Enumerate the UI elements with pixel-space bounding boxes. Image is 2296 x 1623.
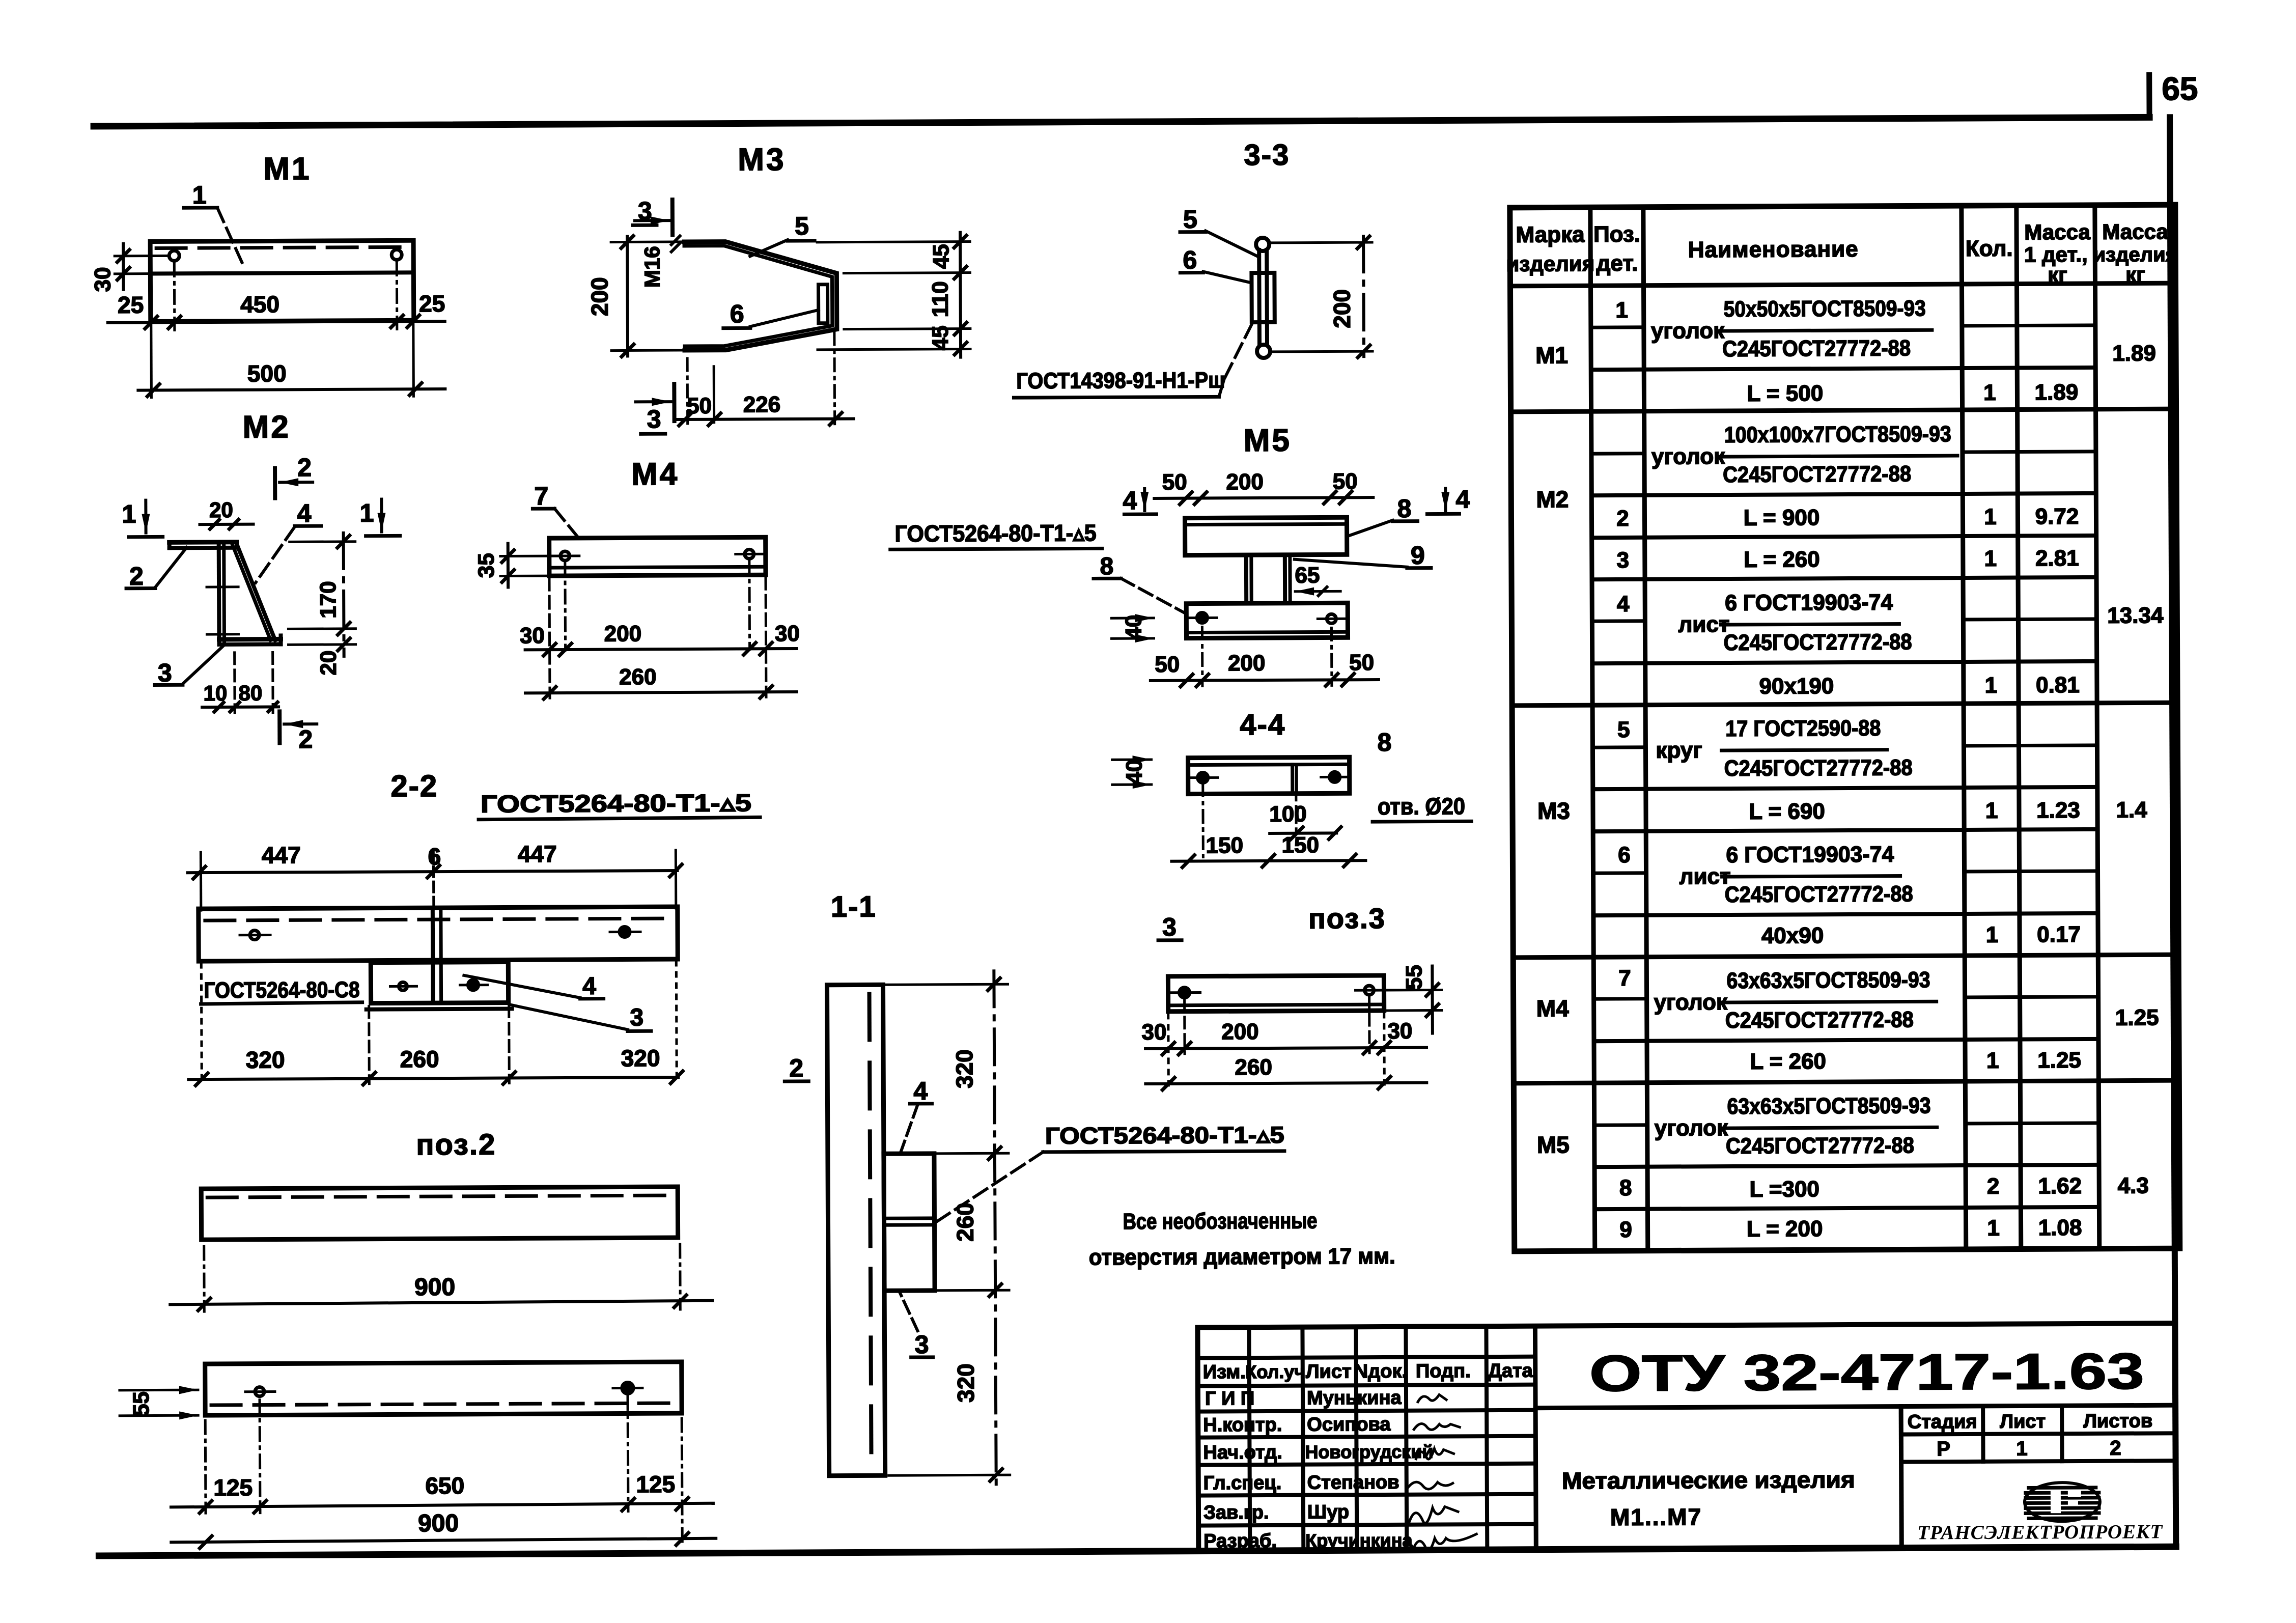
svg-text:Дата: Дата — [1488, 1360, 1533, 1382]
dimension 35 — [474, 543, 562, 587]
svg-text:100х100х7ГОСТ8509-93: 100х100х7ГОСТ8509-93 — [1724, 422, 1951, 447]
svg-text:55: 55 — [129, 1391, 154, 1416]
svg-text:Масса: Масса — [2102, 219, 2168, 244]
table M1 row L=500 — [1747, 380, 2079, 406]
svg-text:8: 8 — [1397, 494, 1411, 523]
sleeve pos6 3-3 — [1251, 273, 1274, 322]
dimension 55 pos3 — [1375, 965, 1442, 1033]
table M3 row 40x90 — [1761, 922, 2081, 948]
table M5 mark — [1537, 1131, 1570, 1158]
dimension 100 — [1269, 795, 1341, 840]
svg-text:L = 200: L = 200 — [1747, 1216, 1823, 1242]
weld note GOST5264-80-T1-5 M5 — [890, 519, 1102, 549]
svg-text:900: 900 — [414, 1274, 455, 1301]
label 1 leader — [184, 181, 243, 264]
label 4 leader 2-2 — [464, 973, 603, 1000]
dimension 260 M4 — [525, 577, 797, 699]
svg-text:50: 50 — [1155, 652, 1180, 677]
table M4 row L=260 — [1750, 1048, 2081, 1074]
dimension 55 pos2 — [120, 1386, 198, 1420]
1-1 attached plate pos4 pos3 — [884, 1154, 935, 1291]
svg-text:2.81: 2.81 — [2035, 546, 2079, 571]
svg-text:поз.3: поз.3 — [1308, 902, 1386, 935]
table M2 mark — [1536, 486, 1569, 512]
svg-text:3: 3 — [1617, 548, 1630, 573]
title M3 — [738, 142, 786, 177]
sheet right border — [2170, 117, 2176, 1546]
pos2 top bar — [201, 1187, 678, 1240]
svg-text:4: 4 — [297, 499, 311, 527]
svg-text:Разраб.: Разраб. — [1203, 1530, 1277, 1552]
svg-text:1: 1 — [1985, 798, 1998, 823]
svg-text:6: 6 — [1618, 843, 1631, 868]
label 8 left leader — [1094, 553, 1186, 614]
note otv diam 20 — [1373, 793, 1471, 822]
logo caption — [1917, 1521, 2163, 1544]
dimension 50 226 — [675, 332, 854, 426]
svg-text:9.72: 9.72 — [2035, 504, 2079, 529]
dimension 30 200 30 M4 — [520, 621, 800, 656]
svg-text:125: 125 — [636, 1471, 675, 1497]
table M5 pos 8 row L=300 — [1619, 1173, 2082, 1202]
svg-text:80: 80 — [239, 681, 263, 705]
dimension chain 320 260 320 1-1 — [886, 971, 1010, 1489]
svg-text:1: 1 — [1983, 380, 1996, 405]
svg-text:L = 900: L = 900 — [1744, 505, 1820, 530]
svg-text:круг: круг — [1656, 738, 1702, 763]
pos3 hole right — [1355, 986, 1383, 995]
svg-text:ГОСТ5264-80-Т1-▵5: ГОСТ5264-80-Т1-▵5 — [895, 519, 1097, 547]
svg-text:1.23: 1.23 — [2036, 798, 2080, 823]
svg-text:Масса: Масса — [2024, 220, 2090, 244]
svg-text:9: 9 — [1619, 1217, 1632, 1242]
svg-text:С245ГОСТ27772-88: С245ГОСТ27772-88 — [1726, 1133, 1914, 1159]
svg-text:1: 1 — [1986, 1048, 1999, 1073]
table quantity-mass column sub lines — [1962, 325, 2099, 1124]
table M4 mark — [1536, 995, 1570, 1021]
dimension 900 bottom — [171, 1418, 716, 1549]
svg-text:200: 200 — [1329, 289, 1355, 328]
table M5 product mass — [2118, 1173, 2149, 1198]
dimension 40 M5 — [1111, 614, 1154, 642]
section marker 2 top — [275, 453, 313, 498]
svg-text:Марка: Марка — [1516, 222, 1585, 247]
svg-text:Нач.отд.: Нач.отд. — [1203, 1442, 1282, 1464]
svg-text:450: 450 — [240, 291, 279, 317]
parts table header row line — [1510, 283, 2176, 286]
dimension 50 200 50 top M5 — [1154, 469, 1373, 505]
svg-text:L = 260: L = 260 — [1750, 1049, 1826, 1074]
M1 angle bar — [150, 240, 414, 321]
page number 65 — [2162, 70, 2198, 107]
svg-text:кг: кг — [2048, 263, 2067, 287]
svg-text:Nдок.: Nдок. — [1354, 1361, 1408, 1382]
svg-text:Н.контр.: Н.контр. — [1203, 1414, 1282, 1436]
label 3 pos3 — [1158, 913, 1182, 941]
pos3 plate — [1168, 975, 1384, 1012]
table M4 name angle 63x63x5 — [1654, 967, 1937, 1033]
svg-text:2: 2 — [789, 1054, 803, 1082]
svg-text:1: 1 — [1984, 505, 1997, 529]
svg-text:7: 7 — [1618, 966, 1631, 991]
dimension 125 650 125 — [171, 1396, 713, 1514]
svg-text:М2: М2 — [1536, 486, 1569, 512]
2-2 weld seam — [433, 908, 441, 1003]
svg-text:9: 9 — [1411, 541, 1425, 570]
svg-text:125: 125 — [213, 1474, 253, 1501]
svg-text:Листов: Листов — [2083, 1410, 2152, 1432]
svg-text:уголок: уголок — [1655, 1115, 1728, 1141]
section marker 3 top — [633, 197, 673, 235]
svg-text:900: 900 — [418, 1510, 459, 1537]
pos2 hole right — [613, 1382, 642, 1393]
svg-text:150: 150 — [1206, 833, 1243, 858]
svg-text:L =300: L =300 — [1749, 1177, 1819, 1202]
table position column sub lines — [1591, 327, 1647, 1125]
sheet top border — [94, 117, 2149, 126]
general note line 1 — [1123, 1209, 1317, 1235]
svg-text:М5: М5 — [1537, 1131, 1570, 1158]
svg-text:M3: M3 — [738, 142, 786, 177]
table M2 name angle 100x100x7 — [1651, 422, 1958, 488]
dimension 40 4-4 — [1112, 755, 1152, 789]
svg-text:Зав.гр.: Зав.гр. — [1203, 1502, 1269, 1524]
svg-text:1-1: 1-1 — [831, 890, 877, 923]
svg-text:25: 25 — [419, 290, 445, 317]
svg-text:отв. Ø20: отв. Ø20 — [1378, 793, 1465, 820]
svg-text:50: 50 — [1162, 470, 1187, 495]
table M5 pos 9 row L=200 — [1619, 1215, 2082, 1242]
1-1 bar dash line — [870, 994, 872, 1467]
svg-text:200: 200 — [1226, 469, 1264, 494]
title block row Razrab — [1203, 1530, 1413, 1552]
stage labels — [1908, 1410, 2153, 1433]
svg-text:3: 3 — [647, 405, 661, 433]
svg-text:Кручинкина: Кручинкина — [1305, 1530, 1413, 1551]
svg-text:М1: М1 — [1535, 342, 1568, 368]
dimension 200 M3 — [586, 236, 688, 357]
svg-text:M16: M16 — [640, 246, 664, 288]
svg-text:уголок: уголок — [1651, 318, 1725, 344]
svg-text:447: 447 — [518, 841, 557, 867]
title M5 — [1244, 423, 1292, 458]
svg-text:65: 65 — [1295, 563, 1320, 588]
stage cells — [1901, 1405, 2176, 1548]
table M3 name round 17 — [1656, 715, 1913, 781]
section marker 3 bottom — [635, 384, 674, 434]
parts table column lines — [1590, 205, 2099, 1251]
logo transelektroproekt — [2025, 1482, 2100, 1522]
weld note GOST14398-91-N1-Rsh — [1014, 318, 1255, 398]
dimension 150 150 — [1171, 783, 1366, 868]
svg-text:1: 1 — [1984, 546, 1997, 571]
svg-text:8: 8 — [1619, 1176, 1632, 1200]
svg-text:200: 200 — [1221, 1019, 1259, 1044]
svg-text:45: 45 — [929, 244, 954, 269]
svg-text:4-4: 4-4 — [1240, 708, 1285, 741]
svg-text:4: 4 — [1617, 592, 1630, 617]
svg-text:С245ГОСТ27772-88: С245ГОСТ27772-88 — [1723, 629, 1912, 655]
M5 web angles — [1246, 555, 1290, 603]
M4 hole left — [551, 551, 580, 650]
dimension 260 pos3 — [1145, 997, 1427, 1090]
page number tick — [2146, 75, 2152, 117]
svg-text:Степанов: Степанов — [1307, 1472, 1399, 1494]
svg-text:30: 30 — [1387, 1019, 1412, 1044]
dimension chain 45 110 45 — [817, 233, 970, 358]
M2 gusset plate — [232, 543, 275, 640]
svg-text:55: 55 — [1402, 965, 1426, 990]
svg-text:63х63х5ГОСТ8509-93: 63х63х5ГОСТ8509-93 — [1726, 967, 1930, 993]
svg-text:50х50х5ГОСТ8509-93: 50х50х5ГОСТ8509-93 — [1724, 296, 1926, 322]
svg-text:2: 2 — [1987, 1174, 2000, 1199]
svg-text:кг: кг — [2125, 262, 2145, 286]
svg-text:100: 100 — [1269, 802, 1307, 827]
svg-text:2: 2 — [129, 562, 144, 591]
dimension 30 200 30 pos3 — [1141, 1019, 1426, 1055]
dimension 50 200 50 bottom M5 — [1150, 626, 1379, 687]
M3 clamp bent bar — [684, 241, 837, 350]
svg-text:1.62: 1.62 — [2038, 1173, 2082, 1198]
svg-text:1: 1 — [192, 181, 207, 209]
2-2 bottom plate pos3 — [366, 962, 512, 1009]
svg-text:8: 8 — [1100, 553, 1113, 580]
svg-text:1.4: 1.4 — [2116, 797, 2147, 822]
svg-text:уголок: уголок — [1651, 444, 1725, 469]
svg-text:отверстия диаметром 17 мм.: отверстия диаметром 17 мм. — [1089, 1244, 1395, 1270]
label 5 leader 3-3 — [1180, 205, 1259, 258]
svg-text:Поз.: Поз. — [1593, 222, 1640, 247]
svg-text:ГОСТ5264-80-Т1-▵5: ГОСТ5264-80-Т1-▵5 — [481, 790, 751, 818]
svg-text:5: 5 — [1183, 205, 1197, 234]
svg-text:Гл.спец.: Гл.спец. — [1203, 1472, 1282, 1494]
svg-text:40х90: 40х90 — [1761, 923, 1824, 948]
dimension 200 3-3 — [1272, 236, 1373, 358]
svg-text:поз.2: поз.2 — [416, 1128, 496, 1162]
dimension 170 — [288, 533, 356, 657]
title block row Glspec — [1203, 1472, 1399, 1494]
svg-text:6 ГОСТ19903-74: 6 ГОСТ19903-74 — [1725, 590, 1893, 615]
svg-text:Изм.: Изм. — [1203, 1361, 1246, 1383]
M5 top plate — [1185, 517, 1347, 555]
svg-text:150: 150 — [1281, 833, 1319, 858]
svg-text:5: 5 — [795, 212, 809, 240]
svg-text:3: 3 — [915, 1330, 929, 1359]
svg-text:1: 1 — [1986, 922, 1999, 947]
svg-text:0.17: 0.17 — [2037, 922, 2081, 947]
M1 bar hidden dash line — [156, 247, 408, 248]
svg-text:уголок: уголок — [1654, 990, 1728, 1015]
table M3 mark — [1537, 797, 1570, 824]
document number OTU 32-4717-1.63 — [1589, 1342, 2144, 1402]
svg-text:110: 110 — [928, 281, 953, 317]
svg-text:5: 5 — [1617, 717, 1630, 742]
svg-text:6 ГОСТ19903-74: 6 ГОСТ19903-74 — [1726, 842, 1894, 868]
table M3 name sheet 6 — [1679, 842, 1913, 907]
svg-text:4: 4 — [1455, 485, 1470, 513]
svg-text:С245ГОСТ27772-88: С245ГОСТ27772-88 — [1722, 335, 1911, 361]
signatures — [1408, 1394, 1476, 1550]
svg-text:С245ГОСТ27772-88: С245ГОСТ27772-88 — [1725, 881, 1913, 907]
title block signature table lines — [1197, 1326, 1536, 1551]
svg-text:2: 2 — [2110, 1437, 2121, 1460]
svg-text:Осипова: Осипова — [1307, 1414, 1391, 1436]
svg-text:С245ГОСТ27772-88: С245ГОСТ27772-88 — [1724, 755, 1913, 781]
section marker 1 right — [359, 498, 400, 536]
svg-text:3: 3 — [158, 658, 172, 687]
svg-text:Металлические изделия: Металлические изделия — [1562, 1466, 1855, 1494]
svg-text:4: 4 — [1123, 486, 1137, 515]
parts table frame — [1510, 205, 2180, 1251]
table M2 pos 3 row L=260 — [1617, 546, 2079, 573]
svg-text:2: 2 — [297, 453, 312, 482]
title M1 — [263, 151, 311, 186]
svg-text:200: 200 — [604, 621, 642, 646]
4-4 hole right — [1321, 772, 1349, 782]
svg-text:С245ГОСТ27772-88: С245ГОСТ27772-88 — [1725, 1007, 1914, 1033]
svg-text:1: 1 — [1987, 1216, 2000, 1241]
title block name cell — [1562, 1466, 1856, 1531]
label 6 leader 3-3 — [1180, 245, 1250, 283]
svg-text:L = 690: L = 690 — [1749, 799, 1825, 824]
title block outer frame — [1197, 1323, 2176, 1551]
svg-text:4.3: 4.3 — [2118, 1173, 2149, 1198]
title 3-3 — [1244, 138, 1290, 172]
svg-text:320: 320 — [246, 1046, 285, 1073]
table header text — [1506, 219, 2177, 289]
general note line 2 — [1089, 1244, 1395, 1270]
svg-text:1.25: 1.25 — [2115, 1005, 2159, 1030]
dimension 65 — [1295, 563, 1340, 596]
dimension 20 top — [200, 498, 253, 529]
label 8 leader 4-4 — [1377, 728, 1391, 757]
svg-text:3: 3 — [1162, 913, 1177, 941]
table M2 product mass — [2107, 603, 2164, 628]
svg-text:65: 65 — [2162, 70, 2198, 107]
label 3 leader — [155, 645, 225, 687]
svg-text:17 ГОСТ2590-88: 17 ГОСТ2590-88 — [1725, 716, 1881, 741]
dimension 320 260 320 — [188, 961, 683, 1085]
svg-text:1: 1 — [122, 500, 136, 528]
svg-text:170: 170 — [316, 581, 341, 619]
svg-text:Кол.уч: Кол.уч — [1245, 1361, 1305, 1383]
1-1 tall bar pos2 — [827, 985, 885, 1475]
svg-text:90х190: 90х190 — [1759, 674, 1834, 699]
title M4 — [631, 457, 679, 492]
svg-text:3-3: 3-3 — [1244, 138, 1290, 172]
title block header labels — [1203, 1360, 1533, 1383]
M2 bracket top flange — [170, 542, 237, 548]
svg-text:М3: М3 — [1537, 797, 1570, 824]
label 4 leader 1-1 — [900, 1077, 932, 1153]
svg-text:20: 20 — [209, 498, 233, 522]
pos2 top bar dash line — [207, 1195, 671, 1197]
title block row Zavgr — [1203, 1501, 1349, 1523]
2-2 plate hole left — [390, 982, 416, 990]
svg-text:Мунькина: Мунькина — [1307, 1387, 1402, 1409]
title M2 — [242, 409, 290, 444]
svg-text:Г И П: Г И П — [1205, 1388, 1254, 1409]
svg-text:50: 50 — [1349, 650, 1374, 675]
svg-text:M5: M5 — [1244, 423, 1292, 458]
2-2 bar hole left — [240, 931, 270, 940]
M5 bottom plate hole right — [1318, 614, 1346, 623]
M2 bracket bottom flange — [219, 635, 281, 645]
svg-text:226: 226 — [743, 392, 781, 417]
table M3 product mass — [2116, 797, 2147, 822]
svg-text:Лист: Лист — [1306, 1361, 1352, 1382]
svg-text:Наименование: Наименование — [1688, 237, 1859, 262]
dimension 10 80 — [202, 652, 279, 713]
svg-text:8: 8 — [1377, 728, 1391, 757]
M1 hole right — [391, 249, 402, 329]
dimension 25 450 25 — [108, 290, 445, 329]
svg-text:1: 1 — [359, 499, 374, 527]
svg-text:ГОСТ14398-91-Н1-Рш: ГОСТ14398-91-Н1-Рш — [1016, 368, 1225, 394]
2-2 plate hole right — [460, 980, 487, 990]
label 5 leader — [750, 212, 815, 257]
section marker 2 bottom — [279, 711, 317, 753]
title 4-4 — [1240, 708, 1285, 741]
svg-text:1: 1 — [2016, 1437, 2027, 1460]
svg-text:С245ГОСТ27772-88: С245ГОСТ27772-88 — [1723, 461, 1911, 487]
svg-text:200: 200 — [586, 277, 612, 316]
title pos.2 — [416, 1128, 496, 1162]
svg-text:50: 50 — [687, 394, 712, 418]
svg-text:4: 4 — [582, 973, 596, 1000]
weld note GOST5264-80-C8 — [201, 977, 362, 1004]
svg-text:500: 500 — [247, 360, 287, 386]
pos2 bottom bar — [205, 1362, 682, 1415]
svg-text:изделия: изделия — [1506, 251, 1594, 276]
svg-text:30: 30 — [90, 267, 115, 292]
title block row Nachotd — [1203, 1441, 1433, 1464]
svg-text:1.89: 1.89 — [2112, 341, 2156, 366]
svg-text:1: 1 — [1615, 298, 1628, 323]
weld note GOST5264-80-T1-5 1-1 — [936, 1122, 1285, 1222]
svg-text:Шур: Шур — [1307, 1501, 1349, 1523]
M4 hole right — [736, 549, 764, 649]
label 8 top leader — [1349, 494, 1417, 536]
M1 hole left — [169, 250, 180, 330]
svg-text:260: 260 — [619, 664, 657, 689]
2-2 bar hole right — [610, 927, 640, 937]
dimension 900 top — [170, 1244, 713, 1312]
svg-text:Подп.: Подп. — [1416, 1360, 1471, 1382]
svg-text:Все необозначенные: Все необозначенные — [1123, 1209, 1317, 1235]
pos3 hole left — [1171, 988, 1200, 998]
table M5 name angle 63x63x5 — [1654, 1093, 1937, 1159]
svg-text:1: 1 — [1985, 673, 1998, 698]
title block right divider — [1535, 1405, 2175, 1408]
dimension 20 right — [289, 638, 356, 676]
dimension 447 6 447 — [187, 840, 682, 910]
dimension 500 — [138, 321, 445, 398]
table M1 name angle 50x50x5 — [1651, 296, 1933, 361]
svg-text:дет.: дет. — [1596, 251, 1638, 276]
label 6 leader — [723, 299, 819, 328]
title block row GIP — [1205, 1387, 1402, 1410]
svg-text:320: 320 — [621, 1045, 660, 1071]
label 9 leader — [1295, 541, 1431, 570]
svg-text:30: 30 — [1141, 1020, 1166, 1045]
table M1 mark — [1535, 342, 1568, 368]
rod pos5 3-3 — [1256, 238, 1270, 358]
M4 angle bar — [549, 537, 766, 576]
svg-text:650: 650 — [425, 1472, 464, 1499]
svg-text:Р: Р — [1937, 1438, 1950, 1460]
svg-text:M4: M4 — [631, 457, 679, 492]
